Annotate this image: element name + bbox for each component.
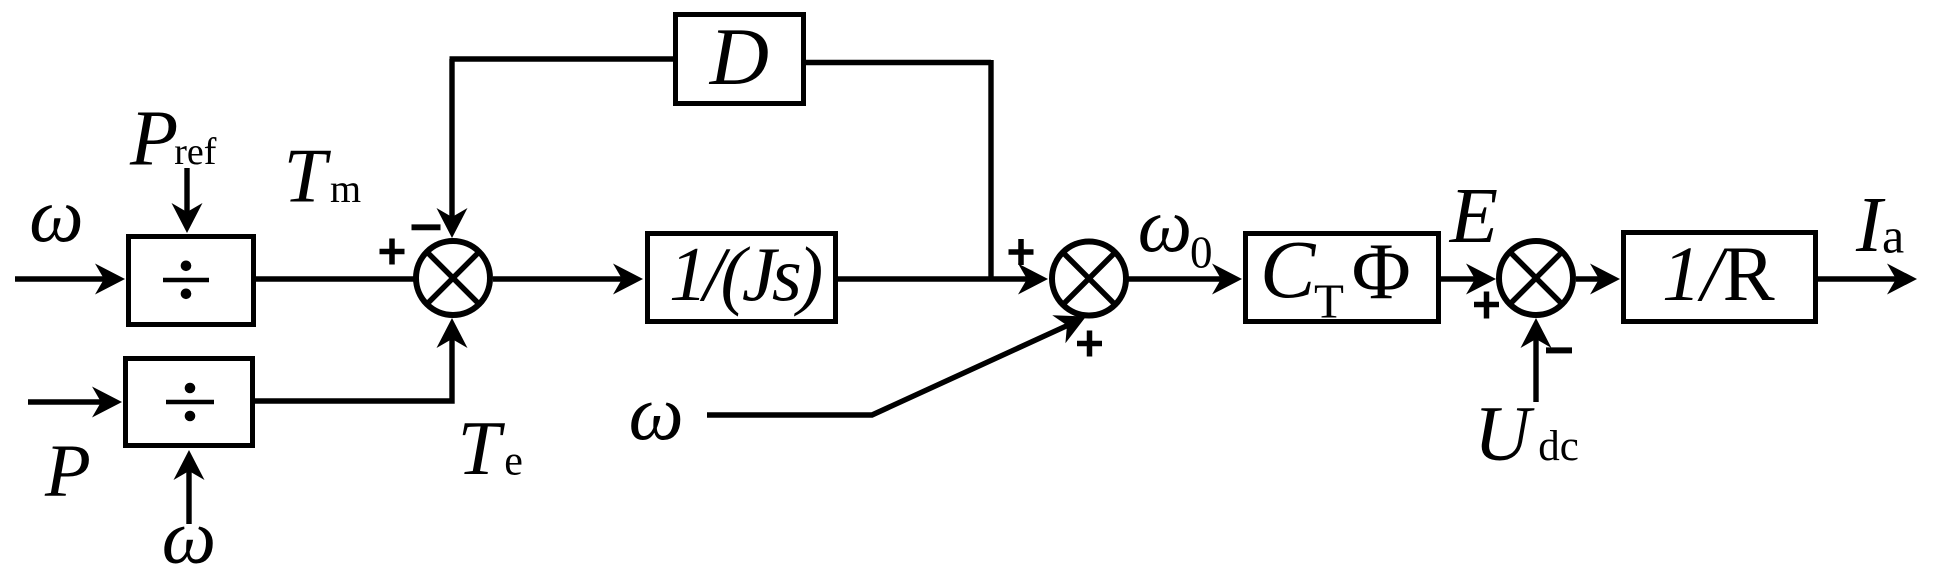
svg-text:e: e [504, 438, 523, 484]
summing junction S3 [1499, 241, 1573, 315]
wire tap node to D input (feedback return) [806, 60, 991, 65]
divide sign of divider1 [163, 278, 209, 283]
svg-text:E: E [1449, 173, 1498, 260]
wire 1/(Js) to S2 [838, 276, 1029, 281]
wire omega input [15, 276, 106, 281]
svg-text:1/R: 1/R [1662, 230, 1775, 317]
wire omega bottom input [186, 469, 191, 524]
block CT-Phi [1246, 234, 1439, 322]
svg-text:P: P [129, 96, 178, 183]
wire S3 to 1/R [1576, 276, 1601, 281]
svg-text:D: D [709, 11, 769, 102]
plus sign at S3 left [1474, 292, 1499, 319]
wire P input [28, 399, 103, 404]
wire Pref input [184, 168, 189, 214]
svg-text:T: T [1314, 274, 1344, 329]
svg-text:0: 0 [1190, 228, 1213, 278]
block 1/(Js) (inertia) [648, 234, 836, 322]
wire divider2 to S1 (Te) [255, 337, 452, 401]
wire divider1 to S1 [256, 276, 414, 281]
minus sign at S3 bottom [1546, 347, 1572, 353]
svg-text:dc: dc [1538, 423, 1579, 470]
summing junction S1 [416, 241, 490, 315]
svg-text:Φ: Φ [1352, 226, 1411, 316]
svg-text:ω: ω [1138, 182, 1192, 268]
svg-text:U: U [1474, 389, 1535, 476]
svg-text:m: m [330, 166, 361, 211]
svg-text:a: a [1882, 208, 1904, 264]
svg-text:T: T [458, 405, 506, 491]
summing junction S2 [1052, 242, 1126, 316]
plus sign at S2 top-left [1009, 239, 1034, 265]
block divider1 (omega,Pref divide) [129, 237, 254, 325]
svg-text:ref: ref [174, 131, 217, 173]
svg-text:1/(Js): 1/(Js) [669, 231, 822, 317]
svg-text:T: T [284, 133, 332, 219]
block D (damping) [676, 15, 804, 104]
plus sign at S2 bottom [1077, 331, 1102, 357]
wire 1/R output Ia [1818, 276, 1898, 281]
minus sign at S1 [412, 224, 441, 230]
wire feedback D to S1 [450, 59, 674, 219]
wire omega diagonal to S2 [707, 325, 1068, 415]
wire Udc input to S3 [1533, 337, 1538, 402]
wire junction node at 1/(Js) output [988, 60, 993, 282]
divide sign of divider2 [166, 400, 214, 405]
svg-text:C: C [1260, 223, 1317, 315]
svg-text:ω: ω [162, 493, 216, 578]
svg-text:P: P [44, 430, 91, 513]
plus sign at S1 [380, 239, 405, 265]
wire S2 to CT block [1126, 276, 1223, 281]
block 1/R [1624, 233, 1816, 322]
block divider2 (P,omega divide) [126, 359, 253, 446]
wire CT to S3 [1441, 276, 1477, 281]
svg-text:ω: ω [629, 369, 684, 456]
svg-text:ω: ω [29, 172, 83, 258]
wire S1 to 1/(Js) [493, 276, 624, 281]
